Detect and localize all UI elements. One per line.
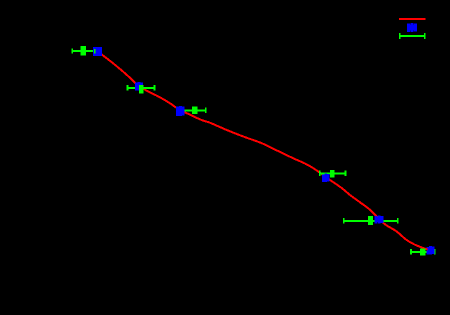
blue square data point 4: [322, 175, 329, 180]
blue square data point 6: [426, 248, 434, 253]
blue square data point 2: [135, 84, 143, 90]
green square marker of point 6: [420, 248, 426, 253]
legend: blue points sample: [407, 25, 417, 31]
green x-error bar of point 6: [410, 251, 435, 253]
green x-error bar of point 2: [127, 87, 156, 89]
red curve tail at point 6: [426, 248, 427, 250]
green square marker of point 4: [330, 170, 335, 175]
legend: red curve sample line: [399, 18, 425, 20]
green x-error bar of point 5: [343, 220, 399, 222]
blue square data point 1: [93, 47, 102, 56]
green square marker of point 2: [139, 85, 144, 90]
green square marker of point 1: [81, 46, 86, 51]
legend: green error-bar sample: [399, 35, 426, 37]
green right error cap of point 1 (over blue): [94, 49, 95, 54]
green x-error bar of point 1: [71, 50, 95, 52]
blue square data point 5: [374, 217, 383, 222]
green x-error bar of point 4: [319, 172, 346, 174]
green square marker of point 5: [368, 216, 373, 221]
red spline fit curve through data points: [98, 52, 431, 251]
green x-error bar of point 3: [183, 109, 206, 111]
green square marker of point 3: [192, 107, 198, 112]
blue square data point 3: [176, 108, 185, 115]
